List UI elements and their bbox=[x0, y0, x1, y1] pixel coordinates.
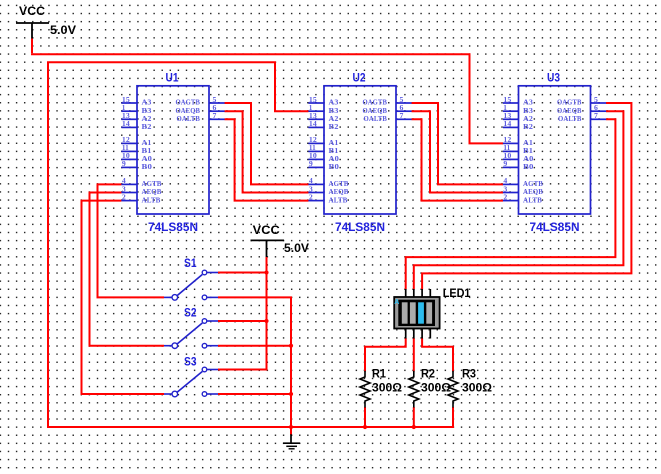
svg-text:S2: S2 bbox=[184, 305, 197, 319]
svg-text:OALTB: OALTB bbox=[364, 115, 388, 123]
switch S2 (SPDT) bbox=[164, 319, 218, 349]
svg-text:ALTB: ALTB bbox=[142, 196, 161, 204]
svg-text:13: 13 bbox=[122, 112, 130, 120]
svg-text:ALTB: ALTB bbox=[523, 196, 542, 204]
svg-text:12: 12 bbox=[309, 136, 317, 144]
svg-text:A1: A1 bbox=[142, 139, 152, 147]
svg-text:U2: U2 bbox=[353, 71, 366, 85]
switch S3 (SPDT) bbox=[164, 367, 218, 397]
svg-text:74LS85N: 74LS85N bbox=[148, 220, 198, 234]
svg-text:13: 13 bbox=[309, 112, 317, 120]
wire R1 bottom -> rail bbox=[364, 407, 366, 427]
svg-text:A3: A3 bbox=[329, 99, 339, 107]
svg-text:10: 10 bbox=[503, 152, 511, 160]
svg-text:1: 1 bbox=[122, 104, 126, 112]
power symbol VCC V1 (top-left) bbox=[16, 4, 77, 39]
wire S1 top contact to VCC rail bbox=[218, 272, 267, 274]
svg-text:4: 4 bbox=[122, 177, 126, 185]
svg-text:AEQB: AEQB bbox=[329, 188, 349, 196]
svg-text:1: 1 bbox=[503, 104, 507, 112]
wire S1 pole -> U1 pin4 AGTB bbox=[98, 184, 165, 297]
svg-text:A2: A2 bbox=[142, 115, 152, 123]
svg-text:A1: A1 bbox=[523, 139, 533, 147]
svg-text:AGTB: AGTB bbox=[329, 180, 349, 188]
svg-text:A3: A3 bbox=[523, 99, 533, 107]
LED1 bar-graph display bbox=[394, 286, 470, 339]
wire U3 out 5 OAGTB -> LED pin3 bbox=[422, 103, 631, 290]
resistor R1 300ohm bbox=[360, 366, 402, 407]
wire U1 out 7 OALTB -> U2 pin2 ALTB bbox=[225, 119, 309, 200]
svg-text:300Ω: 300Ω bbox=[421, 380, 451, 394]
svg-text:AGTB: AGTB bbox=[523, 180, 543, 188]
svg-text:A1: A1 bbox=[329, 139, 339, 147]
svg-text:300Ω: 300Ω bbox=[462, 380, 492, 394]
svg-text:2: 2 bbox=[503, 193, 507, 201]
wire U2 out 7 OALTB -> U3 pin2 ALTB bbox=[412, 119, 504, 200]
svg-text:OAGTB: OAGTB bbox=[363, 99, 388, 107]
svg-text:15: 15 bbox=[309, 96, 317, 104]
wire R3 bottom -> rail bbox=[452, 407, 454, 428]
junction throw rail / S3 throw bbox=[289, 392, 293, 396]
junction R2 / ground rail bbox=[412, 425, 416, 429]
wire U2 out 6 OAEQB -> U3 pin3 AEQB bbox=[412, 111, 504, 192]
svg-text:B0: B0 bbox=[329, 163, 340, 171]
svg-text:3: 3 bbox=[122, 185, 126, 193]
svg-text:AEQB: AEQB bbox=[523, 188, 543, 196]
svg-text:ALTB: ALTB bbox=[329, 196, 348, 204]
junction throw rail / S2 throw bbox=[289, 344, 293, 348]
svg-text:OALTB: OALTB bbox=[177, 115, 201, 123]
svg-text:OALTB: OALTB bbox=[558, 115, 582, 123]
svg-text:2: 2 bbox=[122, 193, 126, 201]
svg-text:4: 4 bbox=[503, 177, 507, 185]
svg-text:11: 11 bbox=[503, 144, 510, 152]
svg-text:LED1: LED1 bbox=[443, 286, 471, 300]
svg-text:B0: B0 bbox=[523, 163, 534, 171]
svg-text:9: 9 bbox=[309, 160, 313, 168]
wire S2 throw to rail bbox=[218, 345, 291, 347]
svg-text:A2: A2 bbox=[523, 115, 533, 123]
svg-text:10: 10 bbox=[122, 152, 130, 160]
junction VCC rail / S2 top contact bbox=[264, 319, 268, 323]
svg-text:13: 13 bbox=[503, 112, 511, 120]
svg-text:S1: S1 bbox=[184, 256, 197, 270]
wire R2 bottom -> rail bbox=[413, 407, 415, 427]
svg-text:11: 11 bbox=[309, 144, 316, 152]
resistor R2 300ohm bbox=[409, 366, 451, 407]
svg-text:6: 6 bbox=[594, 104, 598, 112]
svg-text:B3: B3 bbox=[329, 107, 339, 115]
svg-text:7: 7 bbox=[400, 112, 404, 120]
svg-text:OAEQB: OAEQB bbox=[176, 107, 201, 115]
svg-text:AGTB: AGTB bbox=[142, 180, 162, 188]
svg-text:4: 4 bbox=[309, 177, 313, 185]
wire U3 out 6 OAEQB -> LED pin2 bbox=[414, 111, 624, 289]
svg-text:B1: B1 bbox=[523, 147, 533, 155]
wire U1 out 5 OAGTB -> U2 pin4 AGTB bbox=[225, 103, 309, 184]
comparator U1 74LS85N bbox=[121, 71, 224, 234]
svg-text:11: 11 bbox=[122, 144, 129, 152]
svg-text:B1: B1 bbox=[329, 147, 339, 155]
svg-text:A2: A2 bbox=[329, 115, 339, 123]
wire U1 out 6 OAEQB -> U2 pin3 AEQB bbox=[225, 111, 309, 192]
power symbol VCC V2 (above switches) bbox=[251, 223, 310, 257]
svg-text:OAEQB: OAEQB bbox=[557, 107, 582, 115]
svg-text:U1: U1 bbox=[166, 71, 179, 85]
wire S3 throw to rail bbox=[218, 393, 291, 395]
svg-text:74LS85N: 74LS85N bbox=[530, 220, 580, 234]
svg-text:A0: A0 bbox=[329, 155, 340, 163]
svg-text:B0: B0 bbox=[142, 163, 153, 171]
svg-text:5.0V: 5.0V bbox=[284, 241, 310, 255]
svg-text:R2: R2 bbox=[421, 366, 435, 380]
svg-text:5: 5 bbox=[400, 96, 404, 104]
svg-text:B2: B2 bbox=[329, 123, 339, 131]
svg-text:OAGTB: OAGTB bbox=[557, 99, 582, 107]
svg-text:A: A bbox=[394, 299, 399, 306]
svg-text:300Ω: 300Ω bbox=[372, 380, 402, 394]
svg-text:12: 12 bbox=[122, 136, 130, 144]
comparator U2 74LS85N bbox=[308, 71, 411, 234]
switch S1 (SPDT) bbox=[164, 270, 218, 300]
svg-text:OAEQB: OAEQB bbox=[363, 107, 388, 115]
wire VCC V1 stem (red) bbox=[31, 39, 33, 54]
svg-text:10: 10 bbox=[309, 152, 317, 160]
svg-text:A0: A0 bbox=[523, 155, 534, 163]
ground symbol bbox=[283, 434, 300, 449]
svg-text:5.0V: 5.0V bbox=[50, 23, 77, 37]
wire U2 out 5 OAGTB -> U3 pin4 AGTB bbox=[412, 103, 504, 184]
svg-text:7: 7 bbox=[594, 112, 598, 120]
svg-text:15: 15 bbox=[503, 96, 511, 104]
wire switch throw rail to ground node bbox=[218, 297, 291, 427]
svg-text:AEQB: AEQB bbox=[142, 188, 162, 196]
svg-text:6: 6 bbox=[213, 104, 217, 112]
svg-text:B3: B3 bbox=[523, 107, 533, 115]
svg-text:S3: S3 bbox=[184, 354, 197, 368]
svg-text:2: 2 bbox=[309, 193, 313, 201]
svg-text:B3: B3 bbox=[142, 107, 152, 115]
wire ground stem (red) bbox=[290, 427, 292, 435]
svg-text:6: 6 bbox=[400, 104, 404, 112]
junction VCC rail / S1 top contact bbox=[264, 270, 268, 274]
svg-text:R3: R3 bbox=[462, 366, 476, 380]
svg-text:14: 14 bbox=[122, 120, 130, 128]
svg-text:B2: B2 bbox=[523, 123, 533, 131]
svg-text:5: 5 bbox=[213, 96, 217, 104]
wire S3 pole -> U1 pin2 ALTB bbox=[82, 201, 165, 394]
svg-text:VCC: VCC bbox=[253, 223, 280, 237]
wire left loop: U2 pin1 B3 feed + ground return rail bbox=[48, 62, 453, 427]
svg-text:3: 3 bbox=[503, 185, 507, 193]
svg-text:7: 7 bbox=[213, 112, 217, 120]
svg-text:5: 5 bbox=[594, 96, 598, 104]
wire U3 out 7 OALTB -> LED pin1 bbox=[406, 119, 616, 289]
svg-text:9: 9 bbox=[503, 160, 507, 168]
wire VCC V2 rail to switch top contacts bbox=[218, 257, 267, 370]
svg-text:OAGTB: OAGTB bbox=[176, 99, 201, 107]
wire VCC rail to U3 pin 12 (A1) bbox=[31, 54, 503, 143]
svg-text:14: 14 bbox=[309, 120, 317, 128]
svg-text:U3: U3 bbox=[547, 71, 560, 85]
svg-text:B2: B2 bbox=[142, 123, 152, 131]
svg-text:VCC: VCC bbox=[19, 4, 45, 18]
svg-text:15: 15 bbox=[122, 96, 130, 104]
svg-text:12: 12 bbox=[503, 136, 511, 144]
wire S2 top contact to VCC rail bbox=[218, 320, 267, 322]
svg-text:3: 3 bbox=[309, 185, 313, 193]
svg-text:A0: A0 bbox=[142, 155, 153, 163]
svg-text:1: 1 bbox=[309, 104, 313, 112]
svg-text:74LS85N: 74LS85N bbox=[335, 220, 385, 234]
svg-text:A3: A3 bbox=[142, 99, 152, 107]
wire LED pin3 -> R3 bbox=[422, 338, 453, 372]
resistor R3 300ohm bbox=[448, 366, 492, 407]
wire S2 pole -> U1 pin3 AEQB bbox=[90, 193, 165, 346]
wire LED pin1 -> R1 bbox=[365, 338, 406, 372]
wire LED pin2 -> R2 bbox=[413, 338, 415, 372]
comparator U3 74LS85N bbox=[503, 71, 606, 234]
svg-text:14: 14 bbox=[503, 120, 511, 128]
junction R1 / ground rail bbox=[363, 425, 367, 429]
svg-text:B1: B1 bbox=[142, 147, 152, 155]
junction ground node bbox=[289, 425, 293, 429]
svg-text:9: 9 bbox=[122, 160, 126, 168]
svg-text:R1: R1 bbox=[372, 366, 386, 380]
